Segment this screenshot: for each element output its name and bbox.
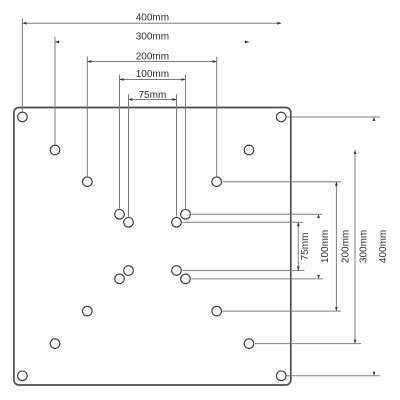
extension line y=270.5 (75mm vert bottom) xyxy=(182,270,304,272)
dim line 75mm vertical xyxy=(297,222,299,270)
dim 100mm vertical (arrows only) xyxy=(317,214,320,218)
dim line 300mm vertical xyxy=(354,150,356,344)
hole 100 bottom-left xyxy=(115,274,125,284)
extension line x=185.5 (100mm top-right) xyxy=(185,75,187,210)
extension line y=278.9 (100mm vert bottom) xyxy=(191,278,322,280)
extension line y=311.1 (200mm vert bottom) xyxy=(223,310,342,312)
extension line x=128.5 (75mm top-left) xyxy=(128,94,130,218)
extension line y=222.3 (75mm vert top) xyxy=(182,221,303,223)
hole 400 top-left xyxy=(18,112,28,122)
extension line y=117 (400mm vert top) xyxy=(287,116,381,118)
hole 100 top-left xyxy=(115,210,125,220)
hole 400 bottom-right xyxy=(276,371,286,381)
extension line y=343.6 (300mm vert bottom) xyxy=(255,343,361,345)
svg-text:400mm: 400mm xyxy=(136,13,169,24)
hole 200 top-left xyxy=(83,177,93,187)
hole 400 bottom-left xyxy=(18,371,28,381)
svg-text:75mm: 75mm xyxy=(139,90,167,101)
hole 300 top-right xyxy=(244,145,254,155)
hole 75 bottom-right xyxy=(172,266,182,276)
svg-text:100mm: 100mm xyxy=(136,69,169,80)
hole 400 top-right xyxy=(276,112,286,122)
extension line x=22.4 (400mm top-left) xyxy=(21,18,23,112)
svg-text:200mm: 200mm xyxy=(340,230,351,263)
extension line x=119.5 (100mm top-left) xyxy=(119,75,121,210)
hole 200 bottom-right xyxy=(212,306,222,316)
extension line x=87.3 (200mm top-left) xyxy=(86,57,88,177)
extension line y=375.8 (400mm vert bottom) xyxy=(287,375,381,377)
extension line x=176.5 (75mm top-right) xyxy=(176,94,178,218)
extension line x=55 (300mm top-left) xyxy=(54,37,56,146)
dim line 100mm horizontal xyxy=(120,79,186,81)
extension line y=181.7 (200mm vert top) xyxy=(223,181,342,183)
svg-text:200mm: 200mm xyxy=(136,51,169,62)
hole 100 top-right xyxy=(181,210,191,220)
extension line x=216.7 (200mm top-right) xyxy=(216,57,218,177)
svg-text:300mm: 300mm xyxy=(358,230,369,263)
dim line 200mm vertical xyxy=(335,182,337,311)
plate outline xyxy=(14,108,291,386)
hole 75 top-right xyxy=(172,218,182,228)
dim 400mm vertical (arrows only) xyxy=(373,117,376,121)
hole 75 bottom-left xyxy=(124,266,134,276)
svg-text:100mm: 100mm xyxy=(320,230,331,263)
extension line y=214.3 (100mm vert top) xyxy=(191,213,322,215)
hole 100 bottom-right xyxy=(181,274,191,284)
hole 200 top-right xyxy=(212,177,222,187)
hole 75 top-left xyxy=(124,218,134,228)
svg-text:400mm: 400mm xyxy=(378,230,389,263)
svg-text:300mm: 300mm xyxy=(136,32,169,43)
hole 300 bottom-right xyxy=(244,339,254,349)
dim line 75mm horizontal xyxy=(129,99,177,101)
hole 300 bottom-left xyxy=(50,339,60,349)
hole 200 bottom-left xyxy=(83,306,93,316)
dim line 200mm horizontal xyxy=(87,61,216,63)
dim line 400mm horizontal xyxy=(22,22,281,24)
svg-text:75mm: 75mm xyxy=(300,233,311,261)
dim 300mm horizontal (arrows only) xyxy=(55,41,60,43)
hole 300 top-left xyxy=(50,145,60,155)
